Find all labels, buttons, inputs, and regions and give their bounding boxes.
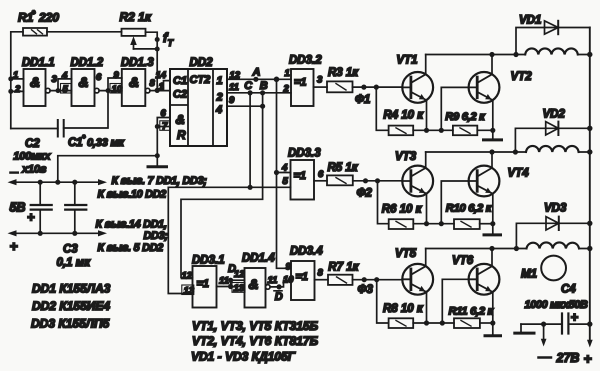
wire VT4 collector to rail: [489, 149, 494, 168]
wire supply bus right: [587, 28, 593, 348]
pin numbers DD3.1: [182, 271, 229, 297]
svg-text:DD1.3: DD1.3: [121, 57, 154, 69]
resistor R3: [327, 81, 353, 92]
counter DD2: [170, 69, 227, 146]
value label R5 1к: [328, 162, 359, 174]
wire R1 right to R2: [47, 31, 122, 33]
svg-text:DD3.3: DD3.3: [288, 148, 321, 160]
ground at VT4: [484, 233, 501, 236]
transistor VT3: [402, 166, 433, 197]
diode VD1: [516, 21, 590, 55]
transistor VT1: [402, 72, 433, 103]
svg-text:R5 1к: R5 1к: [328, 162, 359, 174]
svg-text:C3: C3: [63, 244, 78, 256]
label VD2: [543, 109, 566, 121]
svg-text:4: 4: [61, 71, 68, 82]
wire VT3 collector to rail: [425, 152, 427, 168]
wire to VT4 base: [441, 181, 468, 224]
svg-text:0,33 мк: 0,33 мк: [87, 137, 125, 149]
svg-text:DD1.1: DD1.1: [22, 57, 55, 69]
svg-text:8: 8: [318, 268, 324, 279]
value label R6 10 к: [382, 204, 423, 216]
svg-text:DD1.2: DD1.2: [71, 57, 104, 69]
value label 1000 мкх50В: [525, 299, 588, 311]
svg-text:*: *: [82, 134, 86, 143]
potentiometer R2: [122, 29, 146, 49]
svg-text:R7 1к: R7 1к: [328, 262, 359, 274]
winding L3: [527, 242, 580, 248]
resistor R5: [327, 175, 353, 185]
wire DD1.1 out to DD1.2: [50, 79, 71, 93]
svg-text:B: B: [260, 80, 268, 92]
svg-text:VD1: VD1: [519, 15, 541, 27]
node B label: [260, 80, 268, 92]
label VT6: [452, 255, 474, 267]
pin numbers DD3.2: [283, 68, 324, 95]
wire R11 to VT6 emitter: [480, 320, 496, 325]
svg-text:VT1, VT3, VT5 КТ315Б: VT1, VT3, VT5 КТ315Б: [192, 319, 319, 333]
xor gate DD3.2: [291, 69, 314, 106]
value label R2 1к: [120, 10, 152, 24]
label VT4: [508, 168, 530, 180]
xor gate DD3.1: [193, 266, 217, 308]
value label R7 1к: [328, 262, 359, 274]
label К выв.7 DD1 DD3: [112, 175, 208, 187]
node C label: [244, 80, 253, 92]
svg-text:R9 6,2 к: R9 6,2 к: [445, 111, 486, 123]
svg-text:9: 9: [229, 95, 235, 106]
node F1 label: [355, 94, 370, 106]
svg-text:3: 3: [52, 74, 58, 85]
svg-text:6: 6: [96, 72, 102, 83]
svg-text:1: 1: [159, 82, 164, 93]
svg-text:DD3;: DD3;: [144, 230, 169, 242]
wire DD1.3 out to node fT: [150, 88, 160, 93]
node D label: [228, 263, 236, 275]
svg-text:11: 11: [268, 275, 278, 286]
wire feedback through C1: [11, 91, 108, 129]
label C3 0,1 мк: [57, 244, 92, 270]
wire net D from DD3.1 pin 11 to DD1.4 pins 12 13: [217, 278, 245, 290]
label VT1: [396, 55, 417, 67]
svg-text:12: 12: [234, 269, 245, 280]
svg-text:VT1: VT1: [396, 55, 417, 67]
svg-text:C2: C2: [25, 138, 40, 150]
wire net A from DD2 pin 12 to DD3.2 pin 1: [227, 77, 291, 83]
svg-text:R10 6,2 к: R10 6,2 к: [446, 203, 493, 215]
svg-text:Ф1: Ф1: [355, 94, 370, 106]
winding L2: [526, 146, 579, 152]
pin numbers DD3.4: [283, 262, 324, 286]
svg-text:2: 2: [14, 84, 21, 95]
svg-text:11: 11: [219, 276, 229, 287]
svg-text:=1: =1: [294, 170, 307, 182]
svg-text:6: 6: [161, 108, 167, 119]
arrow minus 27V: [541, 324, 547, 346]
svg-text:DD3.2: DD3.2: [289, 55, 322, 67]
svg-text:14: 14: [156, 70, 167, 81]
wire to VT2 base: [441, 87, 468, 130]
wire to VT6 base: [442, 279, 468, 323]
wire VT5 collector to rail: [425, 249, 427, 267]
svg-text:100мкх: 100мкх: [13, 151, 51, 163]
wire VT1 emitter node: [413, 128, 453, 133]
svg-text:2: 2: [216, 92, 223, 104]
capacitor C1: [58, 120, 64, 137]
svg-text:VT4: VT4: [508, 168, 530, 180]
svg-text:Ф3: Ф3: [358, 284, 374, 296]
label VT5: [395, 248, 417, 260]
svg-text:DD1 К155ЛА3: DD1 К155ЛА3: [32, 282, 111, 296]
value label R4 10 к: [383, 110, 424, 122]
label VT2: [511, 71, 533, 83]
label DD1 К155ЛА3: [32, 282, 111, 296]
xor gate DD3.3: [291, 160, 315, 200]
resistor R10: [454, 219, 480, 229]
svg-text:4: 4: [215, 104, 222, 116]
svg-text:5В: 5В: [10, 201, 26, 215]
value label R11 6,2 к: [449, 306, 495, 318]
wire node F1: [353, 85, 403, 90]
wire net C from DD2 pin 11 to DD3.2 pin 2: [227, 90, 291, 95]
label M1: [521, 269, 537, 281]
svg-text:1: 1: [217, 75, 223, 87]
wire R1 left to DD1.1 inputs and feedback: [8, 32, 23, 129]
svg-text:&: &: [249, 276, 259, 292]
gate DD1.2: [72, 69, 100, 106]
svg-text:DD2 К155ИЕ4: DD2 К155ИЕ4: [32, 299, 110, 313]
label VT2 VT4 VT6 КТ817Б: [192, 334, 319, 348]
svg-text:12: 12: [182, 271, 193, 282]
resistor R11: [454, 318, 480, 328]
label К выв.5 DD2: [98, 242, 164, 254]
value label R10 6,2 к: [446, 203, 493, 215]
pin numbers DD2 left 14 1: [156, 70, 167, 93]
motor M1: [541, 256, 566, 281]
resistor R9: [453, 126, 477, 136]
wire DD2 pins 6 7 to ground: [155, 118, 170, 166]
wire R2 right and wiper to node fT: [134, 32, 160, 90]
svg-text:VT2, VT4, VT6 КТ817Б: VT2, VT4, VT6 КТ817Б: [192, 334, 319, 348]
svg-text:M1: M1: [521, 269, 537, 281]
resistor R7: [328, 275, 353, 285]
winding L1: [525, 48, 578, 54]
wire collector rail 2: [426, 149, 590, 154]
label C4: [561, 284, 576, 296]
svg-text:C1: C1: [68, 137, 83, 149]
node notD label: [274, 291, 283, 303]
svg-text:9: 9: [286, 262, 292, 273]
svg-text:VT5: VT5: [395, 248, 417, 260]
svg-text:1000 мкх50В: 1000 мкх50В: [525, 299, 588, 311]
label C2 text block: [13, 138, 51, 176]
svg-text:DD3.4: DD3.4: [290, 246, 323, 258]
label DD3.4: [290, 246, 323, 258]
minus sign: [10, 171, 17, 173]
svg-text:К выв.10 DD2: К выв.10 DD2: [98, 189, 167, 201]
wire DD3.2 out pin 3: [314, 86, 328, 88]
wire net B vertical to DD3.1 pin 12: [181, 93, 263, 278]
wire net C vertical to DD3.3 pin 5 and DD3.1 pin 13: [168, 93, 290, 294]
svg-text:DD3 К155ЛП5: DD3 К155ЛП5: [31, 317, 110, 331]
svg-text:220: 220: [38, 11, 59, 25]
svg-text:D: D: [275, 291, 283, 303]
label DD2 К155ИЕ4: [32, 299, 110, 313]
resistor R6: [389, 219, 414, 229]
svg-text:2: 2: [283, 84, 290, 95]
label plus: [10, 238, 18, 254]
wire DD1.1 input stubs: [11, 79, 24, 92]
svg-text:9: 9: [114, 70, 120, 81]
label DD3.3: [288, 148, 321, 160]
wire F2 to R6: [378, 181, 389, 224]
svg-text:DD1.4: DD1.4: [242, 253, 275, 265]
wire DD1.2 out to DD1.3: [99, 78, 122, 93]
gate DD1.1: [24, 69, 51, 106]
pin numbers DD1.3: [110, 70, 156, 95]
wire net notD from DD1.4 out to DD3.4 pin 10: [270, 281, 291, 290]
svg-text:R3 1к: R3 1к: [328, 67, 359, 79]
wire node F2: [353, 178, 403, 183]
pin numbers DD1.1: [13, 70, 58, 95]
transistor VT6: [469, 264, 500, 295]
svg-text:R8 10 к: R8 10 к: [383, 303, 424, 315]
transistor VT5: [402, 264, 433, 295]
svg-text:1: 1: [285, 68, 290, 79]
resistor R8: [389, 318, 414, 328]
label К выв.14 DD1 DD3: [96, 219, 169, 242]
svg-text:VD1 - VD3 КД105Г: VD1 - VD3 КД105Г: [191, 350, 296, 364]
label VD1-VD3 КД105Г: [191, 350, 296, 364]
svg-text:VD2: VD2: [543, 109, 566, 121]
svg-text:VD3: VD3: [544, 203, 567, 215]
svg-text:&: &: [79, 74, 89, 90]
wire VT1 emitter down: [426, 100, 428, 130]
svg-text:х10в: х10в: [21, 164, 47, 176]
svg-text:C2: C2: [173, 89, 187, 101]
wire VT3 emitter down: [426, 194, 428, 224]
svg-text:VT2: VT2: [511, 71, 533, 83]
svg-text:3: 3: [317, 75, 323, 86]
wire R10 to VT4 emitter: [480, 221, 496, 226]
wire F3 to R8: [377, 280, 389, 323]
xor gate DD3.4: [291, 261, 315, 300]
wire net B from DD2 pin 9: [227, 104, 265, 109]
svg-text:*: *: [32, 9, 36, 19]
label DD2: [190, 57, 214, 69]
svg-text:VT3: VT3: [395, 151, 417, 163]
wire VT5 emitter node: [413, 320, 454, 325]
label VD1: [519, 15, 541, 27]
node A label: [252, 67, 261, 79]
svg-text:11: 11: [229, 82, 239, 93]
svg-text:=1: =1: [294, 77, 307, 89]
svg-text:5: 5: [283, 176, 289, 187]
transistor VT4: [469, 166, 500, 197]
wire R9 to VT2 emitter: [477, 128, 495, 133]
label DD3 К155ЛП5: [31, 317, 110, 331]
node F3 label: [358, 284, 374, 296]
pin numbers DD2 right 12 11 9: [229, 70, 241, 106]
svg-text:CT2: CT2: [190, 74, 211, 86]
label DD1.4: [242, 253, 275, 265]
pin numbers DD3.3: [281, 163, 324, 188]
pin numbers DD1.2: [61, 71, 103, 96]
transistor VT2: [469, 72, 500, 103]
label VT3: [395, 151, 417, 163]
wire VT5 emitter down: [426, 292, 428, 323]
wire collector rail 1: [426, 52, 590, 57]
ground at VT2: [484, 138, 502, 141]
capacitor C4: [562, 310, 579, 334]
capacitor C3: [65, 182, 86, 233]
svg-text:Ф2: Ф2: [357, 188, 373, 200]
svg-text:+: +: [27, 210, 35, 225]
ground at C4: [515, 324, 534, 333]
svg-text:К выв. 5 DD2: К выв. 5 DD2: [98, 242, 164, 254]
capacitor C2: [27, 182, 52, 233]
label DD3.2: [289, 55, 322, 67]
wire node fT to DD2 pins 14 and 1: [157, 81, 170, 91]
wire net A vertical to DD3.3 pin 4 and DD3.4 pin 9: [274, 79, 291, 268]
wire collector rail 3: [426, 246, 590, 251]
wire minus rail to DD2 ground: [58, 156, 158, 183]
wire VT3 emitter node: [413, 221, 454, 226]
ground at VT6: [485, 334, 501, 337]
svg-text:&: &: [176, 112, 185, 127]
wire node F3: [353, 277, 403, 282]
wire bottom supply: [521, 322, 590, 327]
svg-text:&: &: [129, 74, 139, 90]
wire DD3.3 out pin 6: [314, 180, 327, 182]
svg-text:R11 6,2 к: R11 6,2 к: [449, 306, 495, 318]
svg-text:=1: =1: [296, 271, 309, 283]
svg-text:VT6: VT6: [452, 255, 474, 267]
label DD1.3: [121, 57, 154, 69]
pin numbers DD2 left 6 7: [160, 108, 171, 132]
resistor R1: [23, 28, 47, 36]
svg-text:R: R: [177, 128, 186, 142]
svg-text:+: +: [584, 351, 592, 367]
label DD1.1: [22, 57, 55, 69]
svg-text:DD2: DD2: [190, 57, 214, 69]
diode VD2: [515, 122, 589, 152]
resistor R4: [389, 126, 414, 136]
svg-text:A: A: [252, 67, 261, 79]
value label R8 10 к: [383, 303, 424, 315]
svg-text:=1: =1: [197, 278, 210, 290]
label DD3.1: [192, 255, 225, 267]
label VD3: [544, 203, 567, 215]
diode VD3: [516, 217, 589, 249]
pin numbers DD1.4: [232, 269, 277, 294]
wire VT6 collector to rail: [489, 246, 494, 266]
svg-text:R4 10 к: R4 10 к: [383, 110, 424, 122]
svg-text:+: +: [10, 238, 18, 254]
wire VT4 emitter to ground: [492, 194, 494, 234]
label -27В +: [539, 351, 592, 367]
gate DD1.3: [122, 69, 150, 106]
node fT label: [163, 30, 175, 48]
value label R1* 220: [18, 9, 59, 25]
svg-text:C4: C4: [561, 284, 576, 296]
svg-text:4: 4: [281, 163, 288, 174]
svg-text:DD3.1: DD3.1: [192, 255, 225, 267]
svg-text:27В: 27В: [556, 351, 580, 365]
wire VT1 collector to rail: [425, 55, 427, 75]
svg-text:0,1 мк: 0,1 мк: [57, 257, 92, 269]
wire F1 to R4: [376, 87, 388, 130]
svg-text:T: T: [168, 38, 175, 48]
wire DD3.4 out pin 8: [315, 279, 329, 281]
svg-text:&: &: [30, 74, 40, 90]
svg-text:6: 6: [318, 169, 324, 180]
svg-text:+: +: [571, 310, 579, 325]
node F2 label: [357, 188, 373, 200]
value label C1* 0,33 мк: [68, 134, 125, 149]
svg-text:К выв. 7 DD1, DD3;: К выв. 7 DD1, DD3;: [112, 175, 208, 187]
wire VT2 emitter to ground: [492, 100, 494, 139]
svg-text:C1: C1: [173, 75, 187, 87]
svg-text:R6 10 к: R6 10 к: [382, 204, 423, 216]
value label R3 1к: [328, 67, 359, 79]
svg-text:C: C: [244, 80, 253, 92]
wire plus supply rail: [8, 230, 108, 236]
wire VT6 emitter to ground: [492, 292, 494, 335]
svg-text:К выв.14 DD1,: К выв.14 DD1,: [96, 219, 168, 231]
value label R9 6,2 к: [445, 111, 486, 123]
label 5В: [10, 201, 26, 215]
ground at DD2: [148, 165, 167, 168]
nand gate DD1.4: [245, 268, 271, 308]
label VT1 VT3 VT5 КТ315Б: [192, 319, 319, 333]
label К выв.10 DD2: [98, 189, 167, 201]
label DD1.2: [71, 57, 104, 69]
wire minus supply rail: [8, 179, 108, 185]
svg-text:R2 1к: R2 1к: [120, 10, 152, 24]
wire VT2 collector to rail: [489, 52, 494, 74]
